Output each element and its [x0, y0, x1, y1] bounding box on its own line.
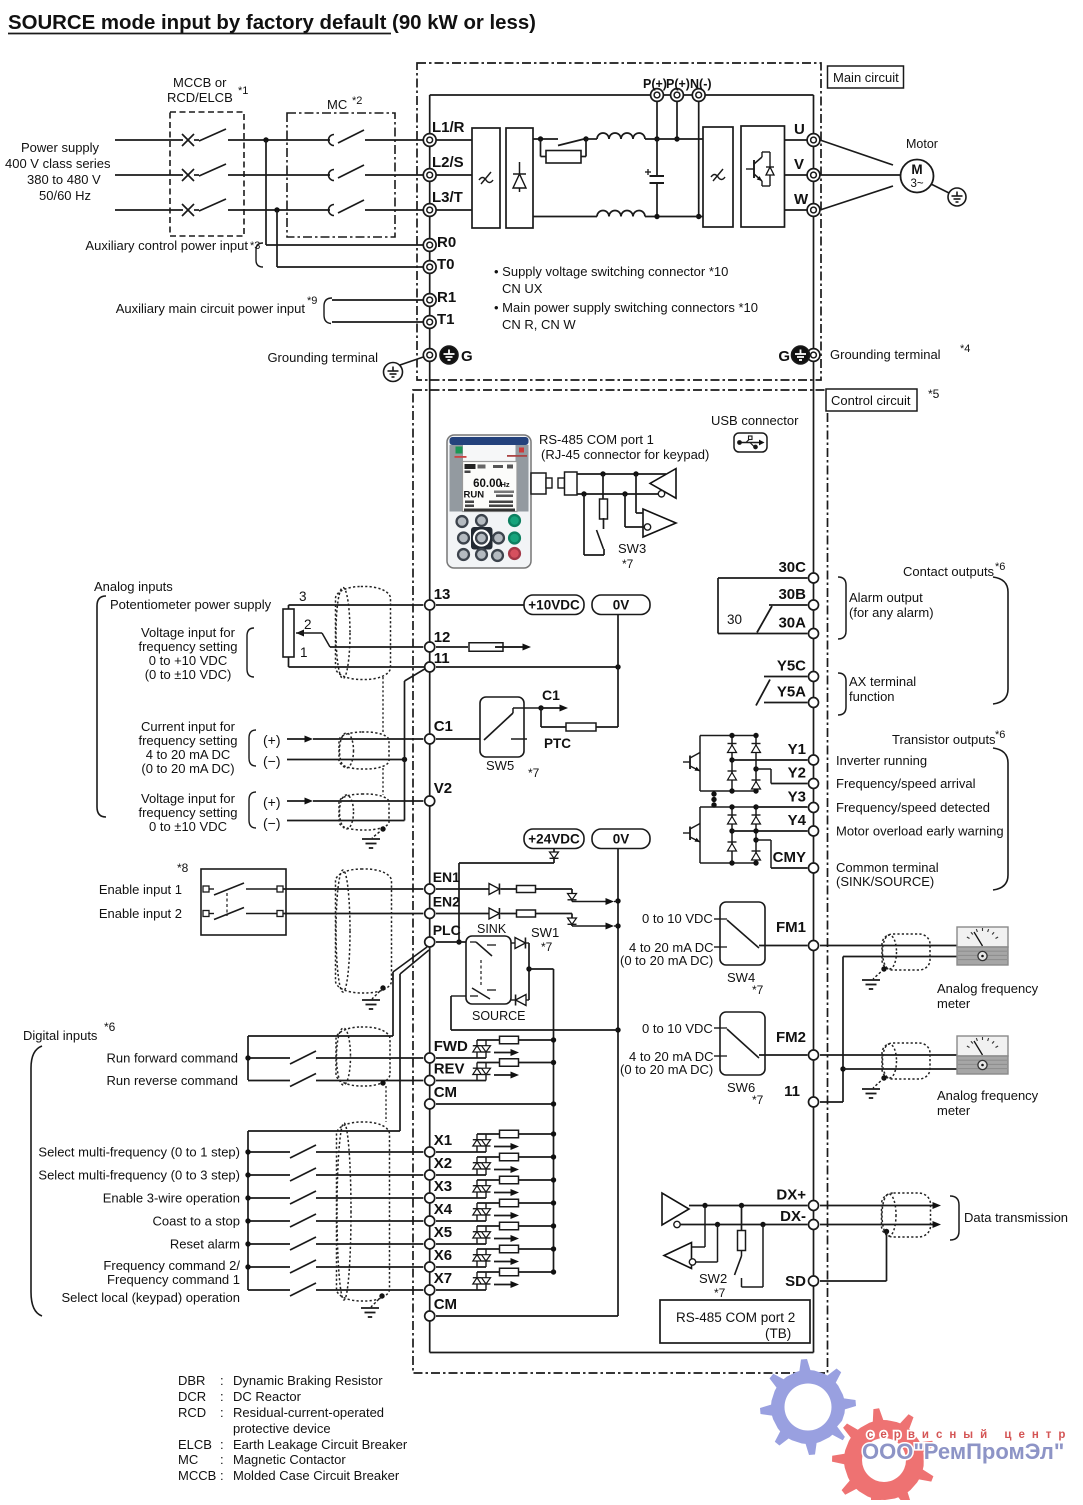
- svg-text:(−): (−): [263, 815, 281, 831]
- svg-text:X5: X5: [434, 1224, 452, 1241]
- svg-text:C1: C1: [434, 718, 453, 735]
- svg-text:X6: X6: [434, 1247, 452, 1264]
- svg-text:PLC: PLC: [433, 922, 461, 938]
- svg-text:30A: 30A: [778, 615, 806, 632]
- svg-text:Enable input 1: Enable input 1: [99, 882, 182, 897]
- svg-text:SD: SD: [785, 1273, 806, 1290]
- svg-text:EN1: EN1: [433, 869, 460, 885]
- svg-text:CM: CM: [434, 1084, 457, 1101]
- svg-text:frequency setting: frequency setting: [138, 805, 237, 820]
- svg-text:0V: 0V: [613, 832, 630, 847]
- svg-text:SW6: SW6: [727, 1080, 755, 1095]
- svg-text:USB connector: USB connector: [711, 413, 799, 428]
- svg-text:(−): (−): [263, 753, 281, 769]
- svg-text:RUN: RUN: [464, 490, 485, 501]
- svg-text:MC: MC: [327, 97, 347, 112]
- svg-text:AX terminal: AX terminal: [849, 674, 916, 689]
- svg-text:Coast to a stop: Coast to a stop: [153, 1214, 240, 1229]
- svg-text:L1/R: L1/R: [432, 119, 465, 136]
- svg-text:Common terminal: Common terminal: [836, 860, 939, 875]
- svg-text:Molded Case Circuit Breaker: Molded Case Circuit Breaker: [233, 1468, 400, 1483]
- svg-text:FM2: FM2: [776, 1029, 806, 1046]
- svg-text:DCR: DCR: [178, 1389, 206, 1404]
- svg-text::: :: [220, 1389, 224, 1404]
- svg-text:*7: *7: [528, 766, 540, 780]
- svg-text:MCCB or: MCCB or: [173, 75, 227, 90]
- svg-text:frequency setting: frequency setting: [138, 639, 237, 654]
- svg-text:(RJ-45 connector for keypad): (RJ-45 connector for keypad): [541, 447, 709, 462]
- svg-text:0V: 0V: [613, 598, 630, 613]
- svg-text:MCCB: MCCB: [178, 1468, 216, 1483]
- svg-text:30C: 30C: [778, 559, 806, 576]
- svg-text:ELCB: ELCB: [178, 1437, 212, 1452]
- svg-text:M: M: [911, 162, 922, 177]
- svg-text:Y1: Y1: [788, 741, 806, 758]
- svg-text:0 to 10 VDC: 0 to 10 VDC: [642, 911, 713, 926]
- svg-text:0 to +10 VDC: 0 to +10 VDC: [149, 653, 227, 668]
- svg-text:Voltage input for: Voltage input for: [141, 625, 236, 640]
- svg-text:SW5: SW5: [486, 758, 514, 773]
- svg-text:Run reverse command: Run reverse command: [107, 1073, 239, 1088]
- svg-text:Hz: Hz: [501, 480, 510, 489]
- svg-text:FWD: FWD: [434, 1038, 468, 1055]
- svg-text:Reset alarm: Reset alarm: [170, 1237, 240, 1252]
- svg-text:Voltage input for: Voltage input for: [141, 791, 236, 806]
- svg-text:*6: *6: [995, 729, 1005, 741]
- svg-text:*4: *4: [960, 343, 970, 355]
- svg-text:*1: *1: [238, 85, 248, 97]
- svg-text:12: 12: [434, 629, 451, 646]
- svg-text:*9: *9: [307, 295, 317, 307]
- svg-text:(0 to 20 mA DC): (0 to 20 mA DC): [620, 1062, 713, 1077]
- svg-text:• Supply voltage switching con: • Supply voltage switching connector *10: [494, 264, 728, 279]
- svg-text:SW1: SW1: [531, 925, 559, 940]
- svg-text:Enable 3-wire operation: Enable 3-wire operation: [103, 1191, 240, 1206]
- svg-text:Select multi-frequency (0 to 3: Select multi-frequency (0 to 3 step): [38, 1168, 240, 1183]
- svg-text:SW2: SW2: [699, 1271, 727, 1286]
- svg-text:SW3: SW3: [618, 541, 646, 556]
- svg-text:400 V class series: 400 V class series: [5, 156, 111, 171]
- svg-text:meter: meter: [937, 996, 971, 1011]
- svg-text:Data transmission: Data transmission: [964, 1210, 1068, 1225]
- svg-text:R0: R0: [437, 234, 456, 251]
- svg-text:0 to ±10 VDC: 0 to ±10 VDC: [149, 819, 227, 834]
- svg-text:60.00: 60.00: [473, 478, 502, 490]
- svg-text:SINK: SINK: [477, 922, 507, 936]
- svg-text:11: 11: [784, 1083, 800, 1100]
- svg-text:Y5C: Y5C: [777, 658, 806, 675]
- svg-text:Magnetic Contactor: Magnetic Contactor: [233, 1452, 346, 1467]
- svg-text:RS-485 COM port 2: RS-485 COM port 2: [676, 1310, 795, 1325]
- svg-text:Grounding terminal: Grounding terminal: [267, 350, 378, 365]
- svg-text:(SINK/SOURCE): (SINK/SOURCE): [836, 874, 934, 889]
- svg-text:Power supply: Power supply: [21, 140, 100, 155]
- svg-text:(0 to 20 mA DC): (0 to 20 mA DC): [620, 953, 713, 968]
- svg-text:(0 to ±10 VDC): (0 to ±10 VDC): [145, 667, 232, 682]
- svg-text:RS-485 COM port 1: RS-485 COM port 1: [539, 432, 654, 447]
- svg-text:0 to 10 VDC: 0 to 10 VDC: [642, 1021, 713, 1036]
- svg-text:G: G: [461, 348, 473, 365]
- svg-text:Auxiliary main circuit power i: Auxiliary main circuit power input: [116, 301, 306, 316]
- svg-text:FM1: FM1: [776, 919, 806, 936]
- svg-text:X3: X3: [434, 1178, 452, 1195]
- svg-text:*7: *7: [752, 983, 764, 997]
- svg-text:Select multi-frequency (0 to 1: Select multi-frequency (0 to 1 step): [38, 1145, 240, 1160]
- svg-text:Residual-current-operated: Residual-current-operated: [233, 1405, 384, 1420]
- svg-text:*7: *7: [714, 1286, 726, 1300]
- svg-text:Contact outputs: Contact outputs: [903, 564, 995, 579]
- svg-text:Y4: Y4: [788, 812, 807, 829]
- svg-text:X7: X7: [434, 1270, 452, 1287]
- svg-text:Alarm output: Alarm output: [849, 590, 923, 605]
- svg-text:Motor overload early warning: Motor overload early warning: [836, 824, 1004, 839]
- svg-text:Select local (keypad) operatio: Select local (keypad) operation: [62, 1290, 241, 1305]
- svg-text:3: 3: [299, 589, 307, 604]
- svg-text:Analog frequency: Analog frequency: [937, 1088, 1039, 1103]
- svg-text:Y3: Y3: [788, 789, 806, 806]
- svg-text:+10VDC: +10VDC: [528, 598, 580, 613]
- svg-text:DX-: DX-: [780, 1208, 806, 1225]
- svg-text:Earth Leakage Circuit Breaker: Earth Leakage Circuit Breaker: [233, 1437, 408, 1452]
- svg-text:DC Reactor: DC Reactor: [233, 1389, 302, 1404]
- svg-text:*5: *5: [928, 387, 940, 401]
- svg-text:Potentiometer power supply: Potentiometer power supply: [110, 597, 272, 612]
- svg-text:SOURCE mode input by factory d: SOURCE mode input by factory default (90…: [8, 12, 536, 34]
- svg-text:RCD/ELCB: RCD/ELCB: [167, 90, 233, 105]
- svg-text:*6: *6: [104, 1020, 116, 1034]
- svg-text:1: 1: [300, 645, 308, 660]
- svg-text:Run forward command: Run forward command: [107, 1051, 239, 1066]
- svg-text:DX+: DX+: [776, 1187, 806, 1204]
- svg-text:P(+): P(+): [666, 77, 690, 91]
- svg-text:REV: REV: [434, 1061, 465, 1078]
- svg-text:N(-): N(-): [690, 77, 712, 91]
- svg-text:CMY: CMY: [773, 849, 806, 866]
- svg-text::: :: [220, 1437, 224, 1452]
- svg-text:Frequency command 2/: Frequency command 2/: [103, 1258, 240, 1273]
- svg-text:(for any alarm): (for any alarm): [849, 605, 934, 620]
- svg-text:30B: 30B: [778, 586, 806, 603]
- svg-text:Frequency command 1: Frequency command 1: [107, 1272, 240, 1287]
- svg-text:X1: X1: [434, 1132, 452, 1149]
- svg-text:Grounding terminal: Grounding terminal: [830, 347, 941, 362]
- svg-text:13: 13: [434, 586, 451, 603]
- svg-text:4 to 20 mA DC: 4 to 20 mA DC: [146, 747, 231, 762]
- svg-text:SW4: SW4: [727, 970, 755, 985]
- svg-text:Current input for: Current input for: [141, 719, 236, 734]
- svg-text:RCD: RCD: [178, 1405, 206, 1420]
- svg-text:DBR: DBR: [178, 1373, 205, 1388]
- svg-text:V2: V2: [434, 780, 452, 797]
- svg-text:*7: *7: [541, 940, 553, 954]
- svg-text:Digital inputs: Digital inputs: [23, 1028, 98, 1043]
- svg-text:C1: C1: [542, 687, 560, 703]
- svg-text::: :: [220, 1468, 224, 1483]
- svg-text:function: function: [849, 689, 895, 704]
- svg-text:CN R, CN W: CN R, CN W: [502, 317, 576, 332]
- svg-text:*2: *2: [352, 95, 362, 107]
- svg-text:+24VDC: +24VDC: [528, 832, 580, 847]
- svg-text:*3: *3: [250, 240, 260, 252]
- svg-text::: :: [220, 1452, 224, 1467]
- svg-text:ООО"РемПромЭл": ООО"РемПромЭл": [862, 1439, 1064, 1464]
- svg-text:(+): (+): [263, 732, 281, 748]
- svg-text:EN2: EN2: [433, 894, 460, 910]
- svg-text:380 to 480 V: 380 to 480 V: [27, 172, 101, 187]
- svg-text:Inverter running: Inverter running: [836, 753, 927, 768]
- svg-text::: :: [220, 1373, 224, 1388]
- svg-text:V: V: [794, 156, 804, 173]
- svg-text:L2/S: L2/S: [432, 154, 464, 171]
- svg-text:W: W: [794, 191, 809, 208]
- svg-text:Y5A: Y5A: [777, 684, 806, 701]
- svg-text:50/60 Hz: 50/60 Hz: [39, 188, 91, 203]
- svg-text:T1: T1: [437, 311, 455, 328]
- svg-text:frequency setting: frequency setting: [138, 733, 237, 748]
- svg-text:R1: R1: [437, 289, 456, 306]
- svg-text:meter: meter: [937, 1103, 971, 1118]
- svg-text:• Main power supply switching: • Main power supply switching connectors…: [494, 300, 758, 315]
- svg-text:Dynamic Braking Resistor: Dynamic Braking Resistor: [233, 1373, 383, 1388]
- svg-text:2: 2: [304, 617, 312, 632]
- svg-text:CM: CM: [434, 1296, 457, 1313]
- svg-text:PTC: PTC: [544, 736, 571, 751]
- svg-text:(+): (+): [263, 794, 281, 810]
- svg-text::: :: [220, 1405, 224, 1420]
- svg-text:*7: *7: [752, 1093, 764, 1107]
- svg-text:(TB): (TB): [765, 1326, 791, 1341]
- svg-text:Main circuit: Main circuit: [833, 70, 899, 85]
- svg-text:protective device: protective device: [233, 1421, 331, 1436]
- svg-text:SOURCE: SOURCE: [472, 1009, 525, 1023]
- svg-text:G: G: [778, 348, 790, 365]
- svg-text:MC: MC: [178, 1452, 198, 1467]
- svg-text:Frequency/speed arrival: Frequency/speed arrival: [836, 776, 976, 791]
- svg-text:Transistor outputs: Transistor outputs: [892, 732, 996, 747]
- svg-text:11: 11: [434, 650, 450, 667]
- svg-text:*6: *6: [995, 561, 1005, 573]
- svg-text:X2: X2: [434, 1155, 452, 1172]
- svg-text:P(+): P(+): [643, 77, 667, 91]
- svg-text:Enable input 2: Enable input 2: [99, 906, 182, 921]
- svg-text:*7: *7: [622, 557, 634, 571]
- svg-text:3~: 3~: [910, 178, 923, 190]
- svg-text:*8: *8: [177, 861, 189, 875]
- svg-text:Analog frequency: Analog frequency: [937, 981, 1039, 996]
- svg-text:Frequency/speed detected: Frequency/speed detected: [836, 800, 990, 815]
- svg-text:Motor: Motor: [906, 137, 938, 151]
- svg-text:T0: T0: [437, 256, 455, 273]
- svg-text:L3/T: L3/T: [432, 189, 463, 206]
- svg-text:CN UX: CN UX: [502, 281, 543, 296]
- svg-text:Y2: Y2: [788, 765, 806, 782]
- svg-text:X4: X4: [434, 1201, 453, 1218]
- svg-text:Analog inputs: Analog inputs: [94, 579, 173, 594]
- svg-text:U: U: [794, 121, 805, 138]
- svg-text:Auxiliary control power input: Auxiliary control power input: [85, 238, 248, 253]
- svg-text:Control circuit: Control circuit: [831, 393, 911, 408]
- svg-text:30: 30: [727, 612, 742, 627]
- svg-text:(0 to 20 mA DC): (0 to 20 mA DC): [141, 761, 234, 776]
